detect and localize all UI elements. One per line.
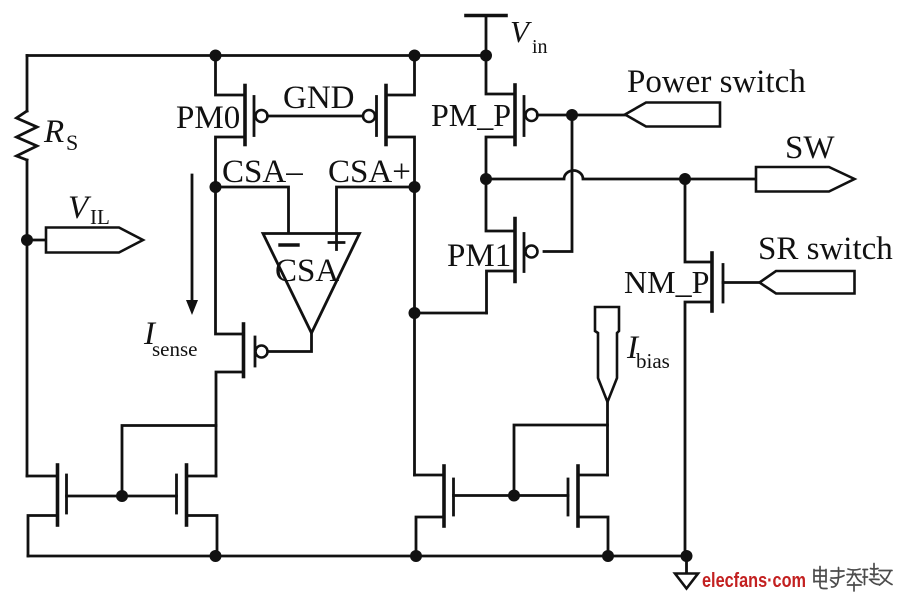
port VIL flag [46,228,143,253]
label Ibias [626,330,670,373]
node power switch gate junction [566,109,578,121]
wire right mirror gate bus [454,494,569,497]
node mirror feed junction [409,307,421,319]
transistor PM1 [486,179,538,313]
port Power switch flag [625,103,720,127]
label RS [43,114,78,155]
transistor PM_P [486,56,538,180]
node right mirror gate junction [508,490,520,502]
svg-text:elecfans·com: elecfans·com [702,570,806,592]
node bottom rail mid [410,550,422,562]
wire power gate to PM1 gate [544,115,572,252]
transistor M3 right mirror left NMOS [415,466,454,556]
ground [675,556,698,589]
node SW NM_P junction [679,173,691,185]
svg-text:sense: sense [152,337,198,361]
svg-text:PM_P: PM_P [431,97,511,133]
wire GND gate bus [268,115,364,118]
wire CSA- to op-amp [216,187,289,234]
wire left branch upper [26,56,29,112]
wire VIL stub [27,239,46,242]
wire op-amp output [268,333,312,352]
power supply Vin symbol [466,16,506,56]
wire CSA+ down to mirror [413,187,416,475]
port SW flag [756,167,855,192]
node rail-Vin junction [480,50,492,62]
wire CSA+ to op-amp [337,187,415,234]
label VIL [68,190,110,229]
svg-text:R: R [43,114,64,150]
transistor sense PMOS [216,187,268,476]
node PM_P drain [480,173,492,185]
svg-text:GND: GND [283,80,355,116]
svg-text:V: V [510,14,532,49]
node bottom rail left [210,550,222,562]
port Ibias flag [595,307,619,402]
wire left branch lower [26,160,29,476]
watermark chinese characters [814,564,892,592]
svg-text:SR switch: SR switch [758,231,893,267]
transistor sense pair right PMOS [363,56,415,188]
current arrow Isense [186,175,198,315]
svg-text:bias: bias [636,349,670,373]
wire left mirror gate bus [67,495,177,498]
node ground junction [681,550,693,562]
svg-text:SW: SW [785,130,835,166]
node CSA- [210,181,222,193]
transistor M1 left mirror left NMOS [27,465,67,556]
node rail-PM0 junction [210,50,222,62]
label Isense [143,316,198,361]
svg-text:CSA–: CSA– [222,154,303,190]
port SR switch flag [760,271,855,294]
watermark elecfans.com [702,570,806,592]
wire bottom rail [28,555,687,558]
resistor RS [17,111,38,160]
wire right mirror diode link [514,425,608,496]
transistor NM_P [685,179,760,556]
wire PM_P gate to flag [537,114,625,117]
transistor M4 right mirror right NMOS [568,466,608,556]
wire PM1 source to mirror node [415,312,487,315]
label Vin [510,14,548,58]
svg-text:PM0: PM0 [176,100,240,136]
svg-text:S: S [66,130,78,155]
node VIL tap [21,234,33,246]
svg-text:V: V [68,190,92,226]
wire Ibias feed [606,403,609,475]
transistor PM0 [216,56,268,188]
svg-text:PM1: PM1 [447,238,511,274]
wire SW line with hop [486,171,756,179]
svg-text:CSA: CSA [275,253,339,289]
node rail right sense PMOS junction [409,50,421,62]
svg-text:in: in [532,36,548,58]
wire top supply rail [27,54,486,57]
node left mirror gate junction [116,490,128,502]
svg-text:Power switch: Power switch [627,64,806,100]
svg-text:NM_P: NM_P [624,264,709,300]
op-amp CSA [263,234,360,334]
transistor M2 left mirror right NMOS [177,465,218,556]
node CSA+ [409,181,421,193]
node bottom rail right [602,550,614,562]
svg-text:CSA+: CSA+ [328,154,411,190]
svg-text:IL: IL [90,205,110,229]
wire left mirror diode link [122,426,216,497]
